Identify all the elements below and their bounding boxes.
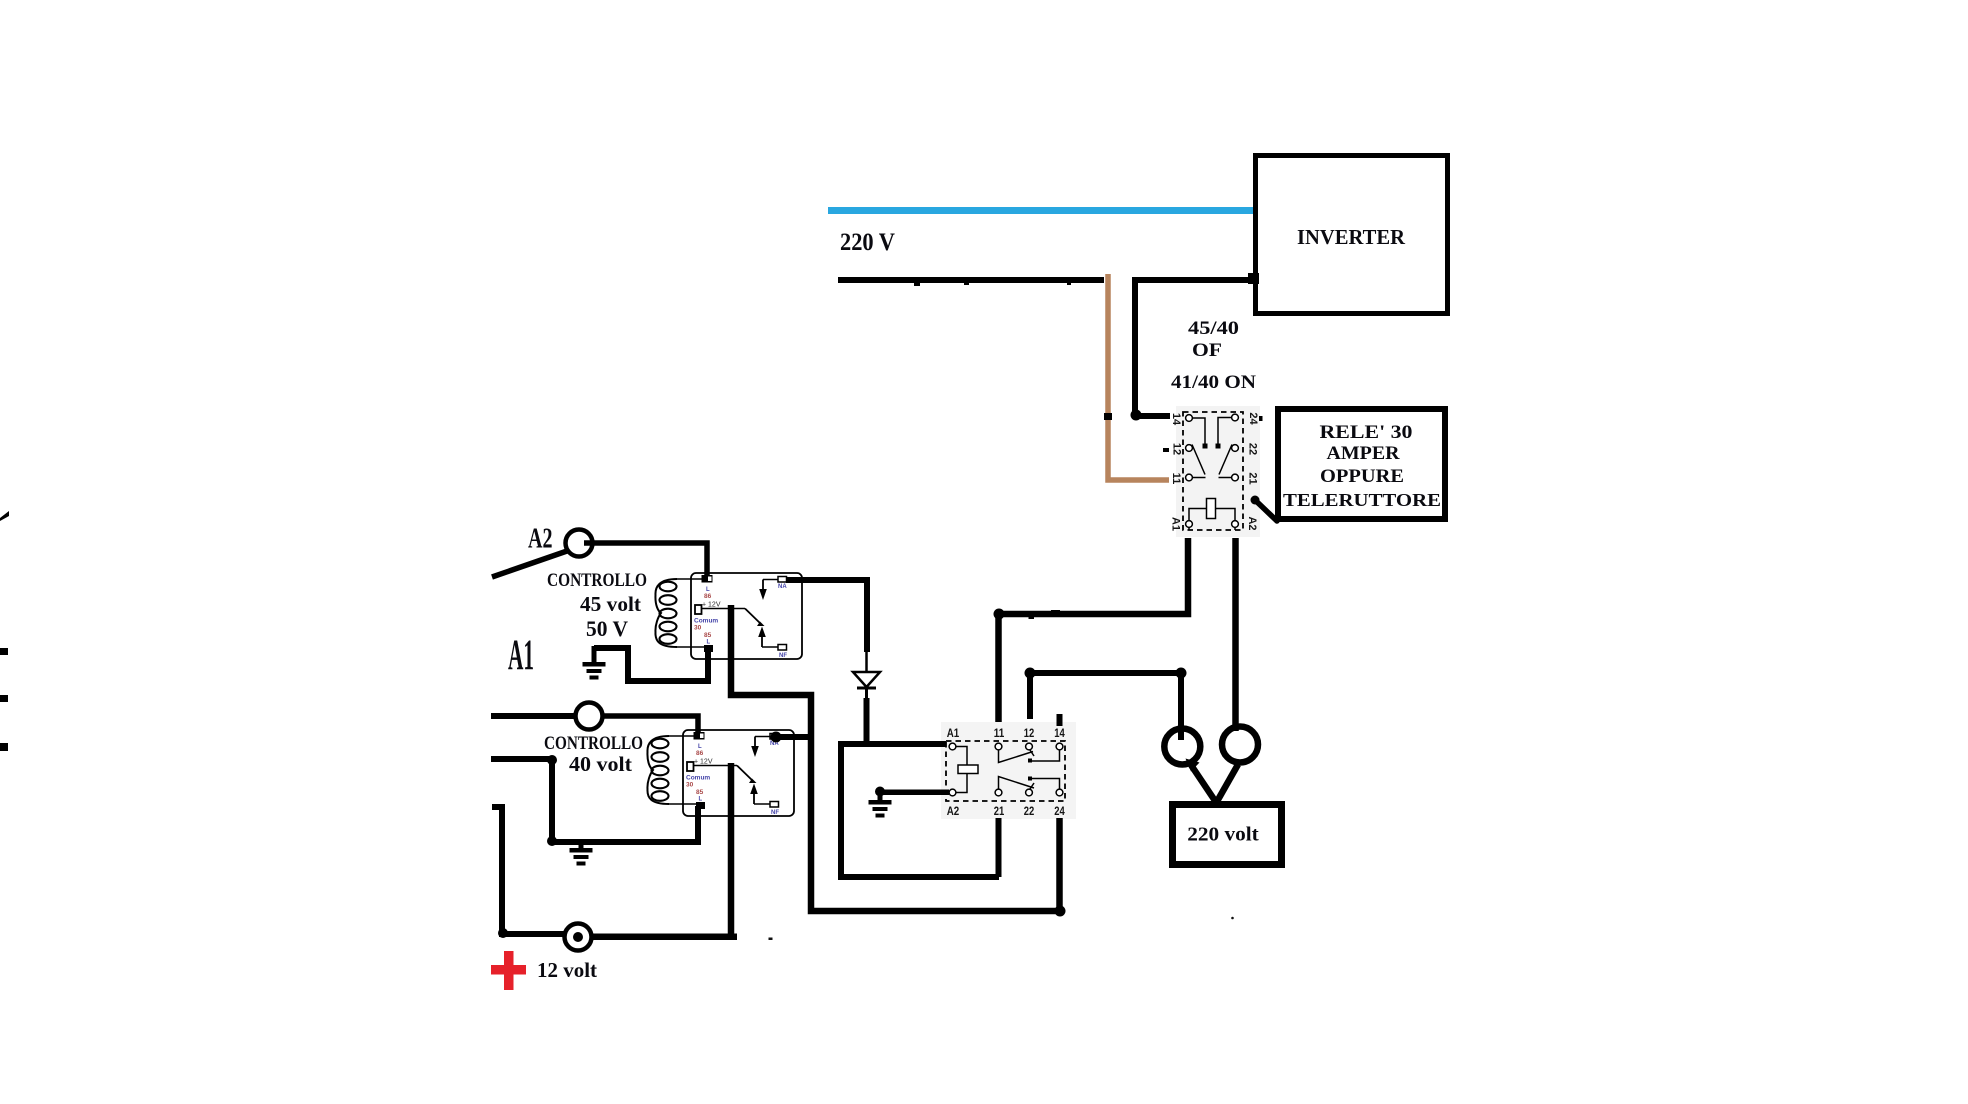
wire: RL2 common (30) down to 12V rail — [728, 763, 735, 939]
wire: 12V terminal to RL2 common rail — [591, 934, 737, 941]
center dot of 12V terminal — [573, 932, 583, 942]
junction tick on 220V wire — [914, 279, 920, 286]
junction bump on A1 wire — [1029, 611, 1035, 619]
svg-text:A2: A2 — [528, 523, 553, 555]
ground G3 — [869, 800, 892, 818]
svg-text:OF: OF — [1192, 340, 1222, 361]
wire: U loop A1 feed (left, bottom) — [841, 741, 999, 877]
corner dot at pin14 wire bend — [1131, 410, 1142, 421]
wire: 220V phase to inverter (right segment) — [1132, 277, 1256, 283]
junction tick on 220V wire — [964, 279, 969, 285]
svg-text:AMPER: AMPER — [1327, 443, 1400, 464]
relay K3 pin 24 — [1232, 414, 1239, 421]
relay K3 pin 14 — [1186, 415, 1193, 422]
svg-text:22: 22 — [1247, 443, 1259, 455]
svg-text:41/40 ON: 41/40 ON — [1171, 372, 1256, 393]
wire: 220V phase line (left segment) — [838, 277, 1104, 283]
lamp L1 — [1164, 729, 1200, 765]
svg-text:RELE' 30: RELE' 30 — [1320, 422, 1413, 443]
wire: lamp2 to 220volt box — [1217, 765, 1238, 802]
relay K4 pin A2 — [949, 789, 956, 796]
svg-text:24: 24 — [1247, 412, 1259, 425]
svg-text:45 volt: 45 volt — [580, 592, 641, 616]
left edge dash — [0, 695, 8, 702]
arrow from RELE box to relay K3 — [1255, 500, 1277, 521]
wire: lamp1 riser, horizontal, drop to K4 pin 12 — [1030, 673, 1181, 740]
box: RELE' 30 AMPER OPPURE TELERUTTORE — [1278, 409, 1445, 519]
switch lever at A2 — [492, 551, 567, 577]
svg-text:A1: A1 — [1170, 517, 1182, 531]
svg-text:11: 11 — [994, 728, 1005, 740]
ground G1 — [583, 662, 606, 680]
wire: diode cathode down to K4 A1 wire — [864, 698, 870, 746]
relay K3 pin A2 — [1232, 521, 1239, 528]
wire: RL1 NA to diode — [786, 580, 867, 652]
relay K4 pin 14 — [1056, 743, 1063, 750]
junction dot at bend — [498, 928, 508, 938]
svg-text:TELERUTTORE: TELERUTTORE — [1283, 490, 1441, 510]
speck near bottom rail — [769, 938, 773, 941]
dash mark left of pin 12 label — [1163, 448, 1169, 452]
wire: A2 terminal to relay RL1 pin 86 — [584, 543, 707, 576]
relay K3 pin 21 — [1232, 474, 1239, 481]
relay RL2 (12V control relay, 40V sense) — [647, 730, 794, 816]
left edge dash — [0, 648, 8, 655]
wire: K3 A2 down to lamp 2 — [1232, 538, 1239, 731]
svg-text:220 volt: 220 volt — [1187, 824, 1259, 846]
relay K3 pin 12 — [1186, 445, 1193, 452]
inverter box — [1256, 156, 1448, 314]
svg-text:CONTROLLO: CONTROLLO — [547, 570, 647, 591]
relay K4 contact pole 2 — [999, 777, 1035, 790]
relay K4 dashed outline — [946, 741, 1065, 801]
bump on A1 wire 2 — [1051, 610, 1060, 614]
relay K3 pin 22 — [1232, 445, 1239, 452]
svg-text:12: 12 — [1171, 443, 1183, 455]
wire: K4 pin 24 down to bottom rail — [1056, 818, 1063, 911]
relay K3 contact block background — [1176, 406, 1260, 537]
wire: left lead into terminal — [491, 713, 576, 719]
wire: RL2 NA to vertical rail — [776, 734, 814, 740]
svg-text:A2: A2 — [1246, 516, 1258, 530]
box: 220 volt load — [1173, 805, 1282, 865]
wire: 12V feed left leg and loop to RL2 pin 85 — [491, 759, 698, 842]
svg-text:14: 14 — [1054, 728, 1065, 740]
svg-text:50 V: 50 V — [586, 616, 628, 641]
svg-text:14: 14 — [1170, 413, 1182, 426]
ground G2 — [570, 848, 593, 866]
junction dot at RL2 NA output — [771, 732, 782, 743]
svg-text:40 volt: 40 volt — [569, 752, 632, 776]
relay K4 pin 22 — [1026, 789, 1033, 796]
stub above K4 pin 14 — [1057, 714, 1063, 726]
ground G2 stem — [579, 842, 584, 849]
wire: lamp1 to 220volt box — [1191, 765, 1216, 802]
relay K4 contact block background — [941, 722, 1076, 819]
black dash mark on brown wire — [1104, 413, 1112, 420]
relay RL1 (12V control relay, 45V sense) — [655, 573, 802, 659]
relay K4 pin 24 — [1056, 789, 1063, 796]
svg-text:11: 11 — [1170, 473, 1182, 485]
junction dot at end of bottom rail — [1055, 906, 1066, 917]
relay K3 coil — [1189, 509, 1235, 521]
svg-text:A2: A2 — [947, 806, 960, 818]
relay K4 coil — [956, 747, 967, 793]
junction dot — [547, 836, 557, 846]
wire: A2 feed with junction dot — [877, 790, 949, 796]
wire: brown neutral wire (vertical + to pin 11) — [1108, 274, 1169, 480]
arrowhead at lamp1 bottom — [1186, 759, 1200, 772]
svg-text:12 volt: 12 volt — [537, 958, 597, 982]
wire: K3 A1 down then left then down to K4 pin 11 — [999, 538, 1189, 726]
svg-text:21: 21 — [994, 806, 1005, 818]
svg-text:12: 12 — [1024, 728, 1035, 740]
relay K3 contact pole 2 — [1218, 418, 1232, 445]
junction dot at A1 wire bend — [994, 609, 1005, 620]
diode D1 — [865, 648, 868, 673]
svg-text:22: 22 — [1024, 806, 1035, 818]
plus symbol (red) 12V battery positive — [504, 951, 514, 990]
ground G3 stem — [878, 791, 883, 801]
svg-text:24: 24 — [1054, 806, 1065, 818]
lamp L2 — [1222, 727, 1258, 763]
relay K4 pin 11 — [995, 743, 1002, 750]
svg-text:A1: A1 — [947, 728, 960, 740]
relay K4 pin 12 — [1026, 743, 1033, 750]
relay K3 pin A1 — [1186, 521, 1193, 528]
svg-text:45/40: 45/40 — [1188, 318, 1239, 339]
relay K3 dashed outline — [1183, 412, 1243, 530]
speck below lamp2 — [1231, 917, 1234, 920]
svg-text:INVERTER: INVERTER — [1297, 225, 1406, 249]
junction dot right end — [1176, 668, 1187, 679]
relay K3 contact pole 1 — [1192, 418, 1205, 444]
relay K4 pin A1 — [949, 743, 956, 750]
junction dot — [547, 755, 557, 765]
wire: RL1 common (30) down, right, down, to bottom rail — [731, 605, 1059, 911]
svg-text:OPPURE: OPPURE — [1320, 466, 1404, 487]
svg-text:CONTROLLO: CONTROLLO — [544, 733, 643, 754]
relay K3 pin 11 — [1186, 474, 1193, 481]
junction square at inverter terminal — [1248, 273, 1259, 284]
wire: black vertical drop to relay pin 14 — [1135, 277, 1170, 416]
left edge tick (cut-off symbol) — [0, 511, 9, 521]
svg-text:A1: A1 — [508, 632, 534, 679]
tick on 220V wire — [1067, 281, 1071, 285]
tick mark right of pin 24 label — [1259, 416, 1263, 421]
ground G1 stem — [592, 646, 597, 663]
svg-text:21: 21 — [1247, 472, 1259, 484]
terminal circle (12 volt) — [565, 924, 592, 951]
left edge dash — [0, 743, 8, 751]
relay K4 contact pole 1 — [999, 750, 1034, 763]
terminal circle A2 — [566, 530, 593, 557]
wire: blue 220V AC line to inverter — [828, 207, 1259, 214]
svg-text:220 V: 220 V — [840, 229, 895, 256]
wire: terminal to relay RL2 pin 86 — [603, 716, 698, 735]
junction dot left end — [1025, 668, 1036, 679]
wire: K4 pin 21 down to bottom of U loop — [996, 818, 1002, 877]
terminal circle (45V control input) — [576, 703, 603, 730]
relay K4 pin 21 — [995, 789, 1002, 796]
wire: lower-left 12V branch — [492, 807, 566, 934]
wire: RL1 pin 85 to ground loop — [594, 648, 708, 681]
